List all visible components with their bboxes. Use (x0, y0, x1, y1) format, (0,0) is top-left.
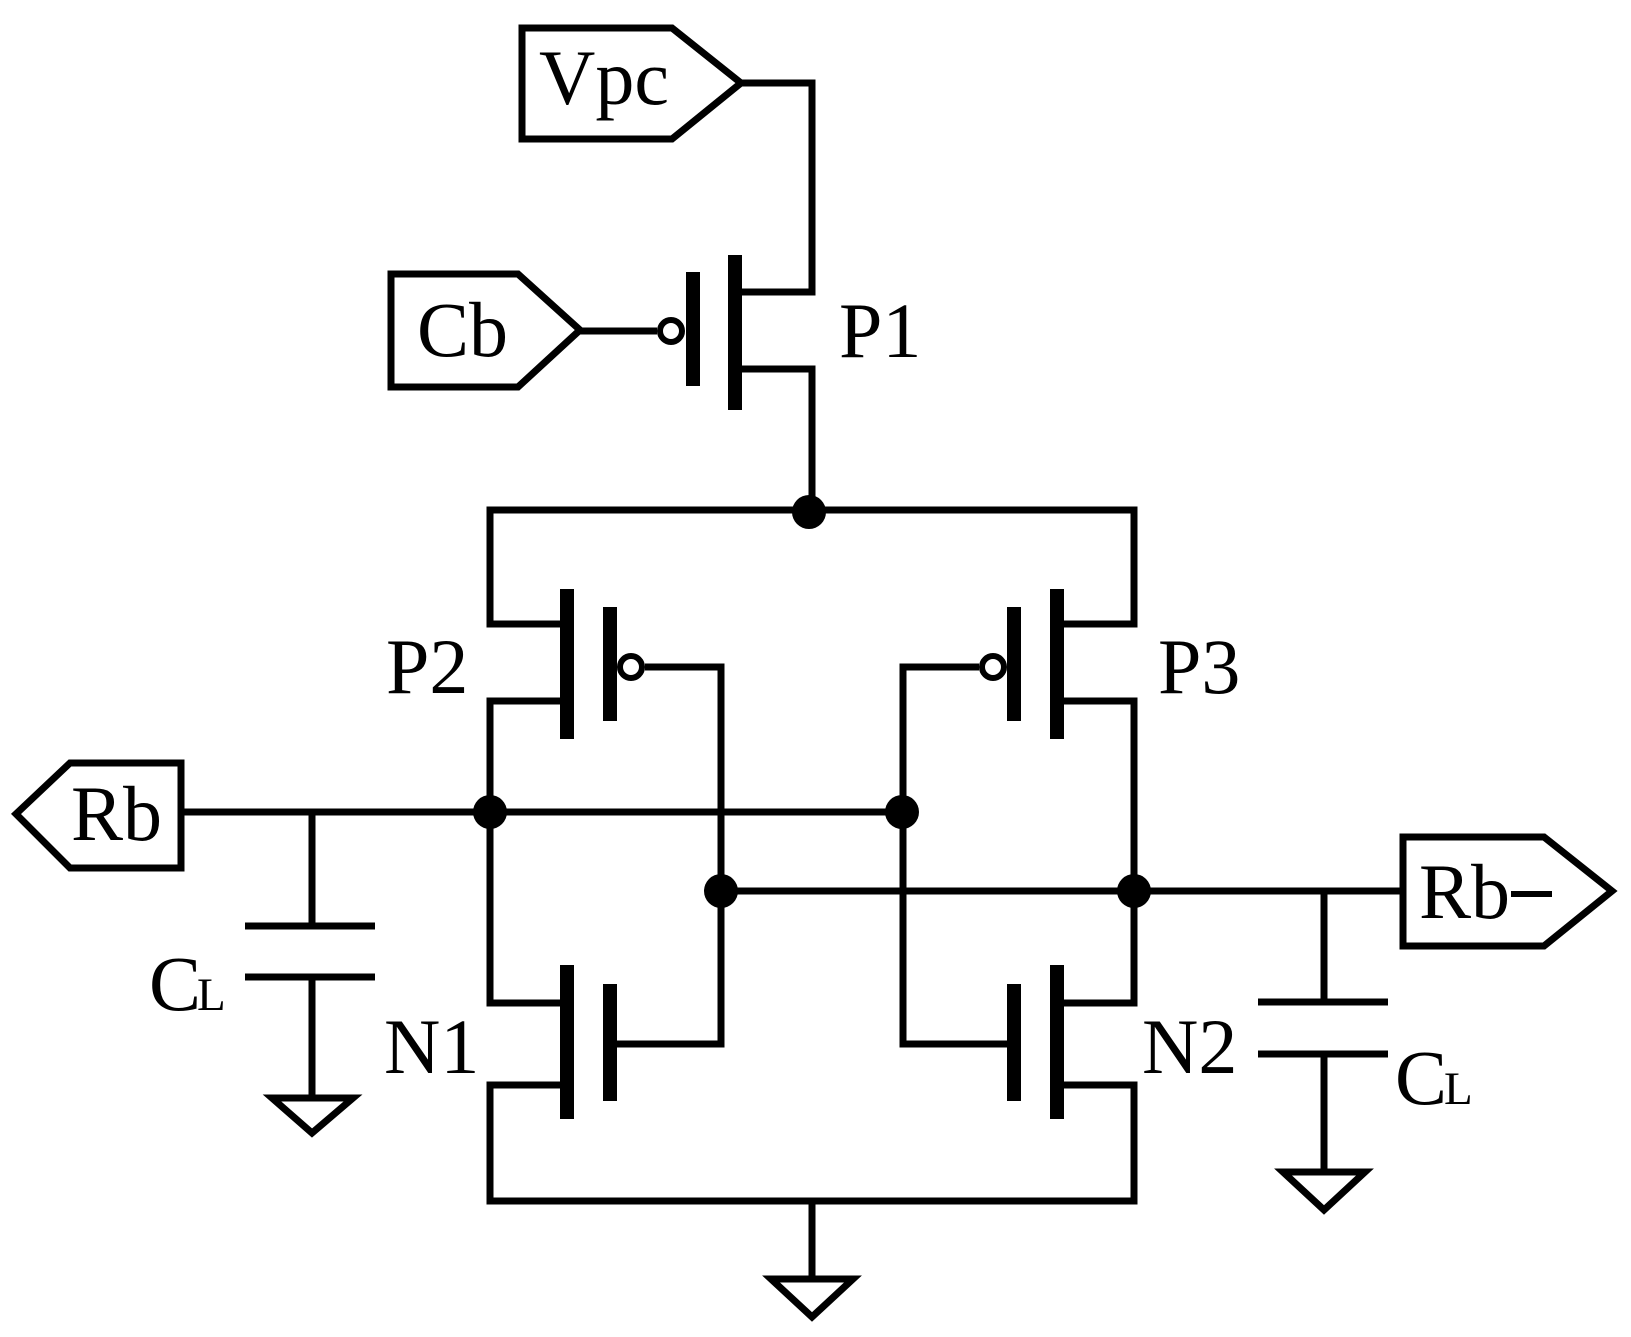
svg-text:N1: N1 (384, 1003, 479, 1090)
svg-text:Rb: Rb (1419, 848, 1510, 935)
svg-text:C: C (149, 940, 201, 1027)
svg-text:Cb: Cb (417, 286, 508, 373)
svg-text:L: L (197, 969, 226, 1021)
svg-text:Rb: Rb (71, 770, 162, 857)
svg-text:P3: P3 (1158, 623, 1240, 710)
svg-text:Vpc: Vpc (539, 34, 669, 121)
svg-text:L: L (1444, 1063, 1473, 1115)
svg-text:C: C (1395, 1034, 1447, 1121)
svg-text:N2: N2 (1142, 1003, 1237, 1090)
svg-text:P1: P1 (839, 287, 921, 374)
svg-text:P2: P2 (386, 623, 468, 710)
